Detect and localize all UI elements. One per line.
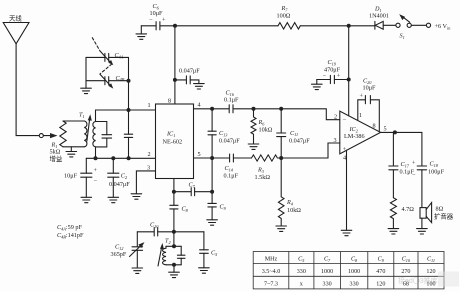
svg-text:5: 5 (384, 126, 387, 133)
svg-text:−: − (94, 178, 98, 185)
svg-text:2: 2 (334, 113, 337, 120)
svg-text:8: 8 (168, 98, 171, 105)
svg-text:增益: 增益 (50, 154, 63, 163)
resistor R3 (252, 155, 278, 181)
svg-text:10kΩ: 10kΩ (259, 127, 273, 134)
capacitor C1 (pin1-pin2) (124, 110, 132, 158)
svg-text:3: 3 (147, 165, 150, 172)
svg-text:−: − (343, 116, 347, 123)
node T1 secondary bottom (94, 156, 98, 160)
svg-text:1: 1 (359, 112, 362, 119)
ground C5 (199, 268, 210, 273)
arrow into R1 wiper (44, 133, 58, 138)
node pin8 bypass junction (173, 78, 177, 82)
ground C19 (312, 80, 323, 90)
svg-text:10kΩ: 10kΩ (287, 207, 301, 214)
svg-text:0.1μF: 0.1μF (224, 173, 239, 180)
capacitor C8 (170, 205, 189, 213)
top rail wire (175, 25, 278, 27)
svg-text:NE-602: NE-602 (163, 139, 183, 146)
svg-text:1: 1 (148, 102, 151, 109)
capacitor C20 gain loop pins 1-8 (358, 78, 380, 131)
svg-text:C8: C8 (351, 257, 358, 263)
wire pin 3 to ground (136, 171, 155, 194)
wire R7 to diode (300, 25, 375, 27)
wire C13 line down to C9 (211, 158, 213, 220)
svg-text:−: − (149, 17, 153, 24)
wire pin 4 of IC2 to ground (346, 150, 348, 230)
svg-text:+: + (360, 93, 364, 100)
terminal +6V (426, 23, 451, 30)
svg-text:3.5~4.0: 3.5~4.0 (262, 269, 281, 275)
antenna (3, 14, 39, 136)
switch S1 (396, 14, 411, 40)
svg-text:C11: C11 (427, 257, 435, 263)
node top rail / pin8 (173, 24, 177, 28)
svg-text:10μF: 10μF (363, 85, 377, 92)
ground T2 (169, 265, 180, 278)
svg-text:330: 330 (323, 282, 332, 288)
svg-text:+: + (337, 73, 341, 80)
ground 4.7 ohm (388, 229, 399, 234)
ground C6 (136, 26, 147, 40)
svg-text:330: 330 (297, 269, 306, 275)
node pin5/C13 (210, 156, 214, 160)
wire diode to switch (383, 24, 396, 26)
capacitor 10uF (pin2 bypass) (64, 158, 98, 197)
wire pin 2 row (86, 157, 155, 159)
wire pin 8 up to top rail (174, 26, 176, 104)
wire output pin 5 (381, 131, 422, 133)
node C1 bottom (127, 156, 131, 160)
svg-text:5: 5 (198, 151, 201, 158)
ground varactor (81, 81, 92, 94)
ground C12 (132, 268, 143, 273)
wire switch to +6V terminal (411, 24, 426, 26)
svg-text:470: 470 (376, 269, 385, 275)
capacitor 0.047uF (pin8 bypass) (175, 68, 200, 84)
node C7 left (172, 190, 176, 194)
svg-text:7~7.3: 7~7.3 (264, 282, 278, 288)
svg-text:MHz: MHz (265, 257, 278, 263)
T1 secondary loop with parallel capacitor (96, 110, 112, 158)
svg-text:0.047μF: 0.047μF (179, 68, 200, 75)
note C4A/C4B values (57, 224, 84, 239)
wire pin 4 row (194, 109, 340, 120)
capacitor C10 (137, 222, 174, 237)
capacitor C6 (141, 3, 175, 30)
resistor R6 (251, 109, 273, 144)
variable capacitor C12 365pF (111, 232, 145, 268)
svg-text:4: 4 (198, 102, 201, 109)
IC U1 NE-602 (156, 104, 194, 179)
svg-text:100μF: 100μF (428, 169, 445, 176)
wire osc row to C5 (174, 231, 204, 233)
svg-text:8: 8 (373, 123, 376, 130)
svg-text:470μF: 470μF (324, 67, 341, 74)
varactor C4B (86, 74, 129, 88)
svg-text:330: 330 (350, 282, 359, 288)
svg-text:C9: C9 (378, 257, 385, 263)
svg-text:10μF: 10μF (150, 10, 164, 17)
op-amp U2 LM-386 (340, 111, 381, 154)
capacitor C2 (108, 158, 131, 197)
T2 tank capacitor (177, 246, 185, 264)
component table (253, 252, 444, 289)
ground under R1/T1 primary (66, 147, 77, 157)
ground 10uF (81, 197, 92, 202)
ground pin8 bypass (194, 84, 205, 89)
capacitor C14 (224, 154, 239, 180)
capacitor C11 (277, 109, 311, 158)
svg-text:天线: 天线 (9, 14, 22, 23)
svg-text:365pF: 365pF (111, 251, 127, 258)
wire varactor right side down to pin1 (128, 57, 130, 110)
capacitor C16 (224, 90, 239, 113)
svg-text:120: 120 (376, 282, 385, 288)
node tank top (172, 244, 176, 248)
svg-text:0.047μF: 0.047μF (109, 181, 130, 188)
ground R6 (248, 144, 259, 149)
svg-text:4.7Ω: 4.7Ω (402, 206, 415, 213)
node C2 top (111, 156, 115, 160)
node output junction (393, 130, 397, 134)
speaker 8 ohm (420, 203, 454, 223)
svg-text:270: 270 (401, 269, 410, 275)
svg-text:1.5kΩ: 1.5kΩ (255, 174, 271, 181)
ground speaker (417, 229, 428, 234)
node C11 bottom / R4 (279, 156, 283, 160)
capacitor C19 470uF (317, 59, 349, 84)
wire pin 1 of IC1 (96, 109, 156, 111)
ground C9 (207, 220, 218, 225)
capacitor C13 (208, 109, 240, 158)
capacitor C17 (389, 132, 415, 197)
diode D1 1N4001 (369, 6, 389, 30)
wire pins 6/7 line from IC bottom (173, 179, 175, 232)
svg-text:C4B:141pF: C4B:141pF (57, 232, 84, 239)
svg-text:C7: C7 (324, 257, 331, 263)
wire R1 bottom bar to T1 primary (63, 146, 84, 148)
capacitor C7 (174, 182, 212, 196)
svg-text:LM-386: LM-386 (344, 133, 365, 140)
svg-text:0.1μF: 0.1μF (224, 97, 239, 104)
svg-text:0.047μF: 0.047μF (219, 138, 240, 145)
resistor R1 (gain pot) (50, 121, 67, 163)
varactor C4A (86, 51, 129, 65)
antenna input terminal (39, 134, 43, 138)
watermark (398, 272, 459, 287)
svg-text:接ed〇3推库: 接ed〇3推库 (398, 276, 438, 285)
svg-text:−: − (412, 172, 416, 179)
svg-text:+: + (412, 160, 416, 167)
svg-text:100Ω: 100Ω (277, 13, 291, 20)
resistor 4.7 ohm (390, 198, 414, 229)
resistor R7 (277, 5, 301, 29)
node C13 top (210, 107, 214, 111)
node C7 right (210, 190, 214, 194)
node C19 junction (347, 78, 351, 82)
svg-text:扩音器: 扩音器 (434, 212, 454, 221)
svg-text:0.047μF: 0.047μF (289, 138, 310, 145)
ground C2 (108, 197, 119, 202)
svg-text:1000: 1000 (321, 269, 333, 275)
transformer T1 (79, 112, 96, 147)
svg-text:4: 4 (343, 155, 346, 162)
svg-text:5kΩ: 5kΩ (50, 149, 61, 156)
resistor R4 (278, 158, 301, 226)
svg-text:3: 3 (334, 137, 337, 144)
wire V+ supply line down to IC2 (348, 26, 350, 116)
svg-text:8Ω: 8Ω (436, 206, 444, 213)
wire osc junction down to tank (173, 232, 175, 247)
svg-text:120: 120 (426, 269, 435, 275)
svg-text:C5: C5 (298, 257, 305, 263)
wire pin 5 row (194, 143, 340, 158)
svg-text:C4A:59 pF: C4A:59 pF (57, 224, 82, 231)
node varactor bottom right (127, 79, 131, 83)
ground IC2 pin4 (341, 230, 352, 235)
ground pin3 (131, 194, 142, 199)
gang dashed line for C4A/C4B (92, 38, 112, 74)
capacitor C18 100uF (412, 132, 445, 207)
svg-text:+: + (94, 167, 98, 174)
node pin1/varactor junction (127, 108, 131, 112)
capacitor C5 (200, 232, 219, 268)
oscillator coil T2 (158, 238, 181, 267)
node tank bottom (172, 263, 176, 267)
svg-text:2: 2 (148, 151, 151, 158)
wire R1 top bar to T1 primary (63, 120, 84, 122)
node supply drop (347, 24, 351, 28)
node C11 top (279, 107, 283, 111)
wire speaker to ground (421, 218, 423, 228)
svg-text:C10: C10 (402, 257, 411, 263)
svg-text:−: − (323, 73, 327, 80)
node R6 top (252, 107, 256, 111)
svg-text:10μF: 10μF (64, 173, 78, 180)
svg-text:x: x (300, 282, 303, 288)
svg-text:+: + (162, 17, 166, 24)
svg-text:1N4001: 1N4001 (369, 13, 389, 20)
node osc row (172, 230, 176, 234)
svg-text:1000: 1000 (348, 269, 360, 275)
wire varactor left side (85, 57, 87, 80)
capacitor C9 (208, 203, 227, 211)
ground R4 (276, 226, 287, 231)
